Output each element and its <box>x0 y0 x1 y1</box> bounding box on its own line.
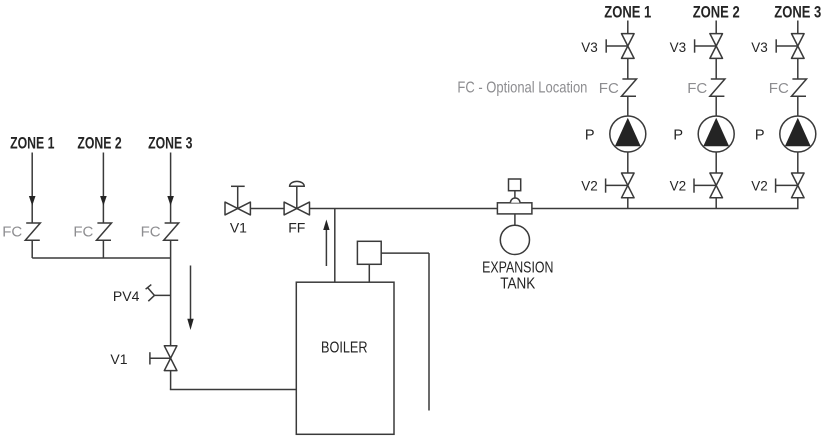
svg-text:V2: V2 <box>670 178 687 193</box>
svg-text:P: P <box>755 128 765 144</box>
svg-text:ZONE 2: ZONE 2 <box>693 4 740 22</box>
svg-text:V2: V2 <box>581 178 598 193</box>
svg-text:ZONE 2: ZONE 2 <box>77 134 121 152</box>
svg-text:V2: V2 <box>751 178 768 193</box>
svg-text:FC: FC <box>769 80 789 97</box>
svg-text:ZONE 1: ZONE 1 <box>604 4 651 22</box>
svg-text:FC: FC <box>599 80 619 97</box>
svg-text:FF: FF <box>288 219 305 235</box>
svg-text:FC - Optional Location: FC - Optional Location <box>457 80 587 97</box>
svg-text:TANK: TANK <box>500 276 535 293</box>
svg-text:FC: FC <box>2 224 22 241</box>
svg-text:P: P <box>585 128 595 144</box>
svg-text:BOILER: BOILER <box>321 339 368 356</box>
svg-text:PV4: PV4 <box>113 288 140 304</box>
svg-text:V1: V1 <box>230 219 247 235</box>
svg-text:V3: V3 <box>751 40 768 55</box>
svg-text:V3: V3 <box>581 40 598 55</box>
svg-text:ZONE 3: ZONE 3 <box>148 134 192 152</box>
svg-text:V3: V3 <box>670 40 687 55</box>
svg-text:V1: V1 <box>110 351 127 367</box>
svg-text:FC: FC <box>687 80 707 97</box>
svg-text:EXPANSION: EXPANSION <box>482 260 553 277</box>
svg-text:ZONE 3: ZONE 3 <box>774 4 821 22</box>
svg-text:FC: FC <box>141 224 161 241</box>
svg-text:FC: FC <box>73 224 93 241</box>
svg-text:P: P <box>673 128 683 144</box>
svg-text:ZONE 1: ZONE 1 <box>10 134 54 152</box>
